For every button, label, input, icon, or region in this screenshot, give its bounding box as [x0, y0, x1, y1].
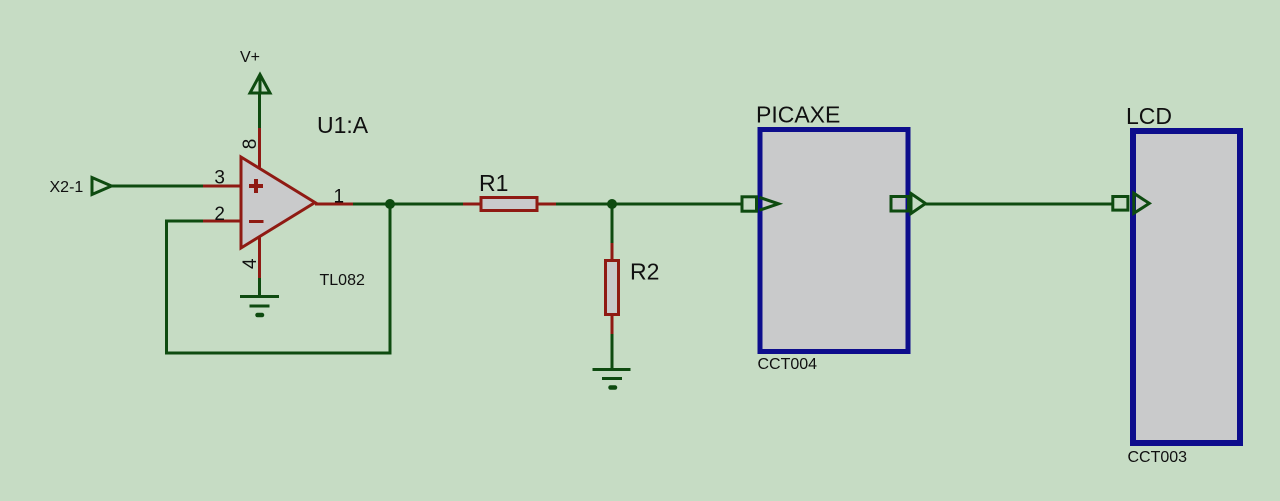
- svg-text:U1:A: U1:A: [317, 112, 369, 138]
- svg-text:3: 3: [214, 168, 225, 189]
- svg-text:2: 2: [214, 204, 225, 225]
- svg-text:8: 8: [240, 139, 261, 150]
- svg-text:LCD: LCD: [1126, 103, 1172, 129]
- svg-text:CCT003: CCT003: [1128, 449, 1188, 466]
- svg-text:CCT004: CCT004: [758, 356, 818, 373]
- svg-text:R1: R1: [479, 170, 508, 196]
- svg-text:V+: V+: [240, 49, 260, 66]
- svg-text:TL082: TL082: [320, 272, 365, 289]
- svg-text:PICAXE: PICAXE: [756, 102, 840, 128]
- svg-text:4: 4: [240, 258, 261, 269]
- svg-text:X2-1: X2-1: [50, 179, 84, 196]
- svg-text:1: 1: [334, 187, 345, 208]
- svg-text:R2: R2: [630, 259, 659, 285]
